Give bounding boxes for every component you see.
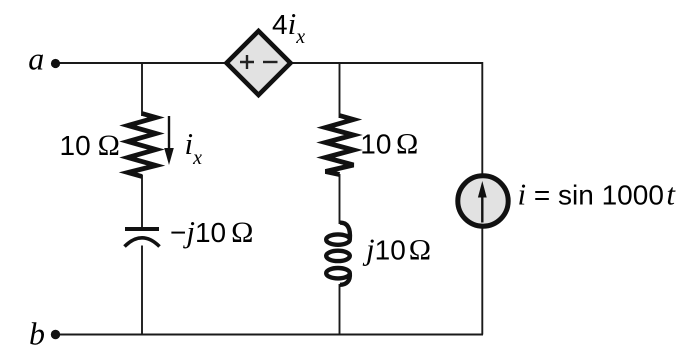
wire middle branch lower (339, 284, 341, 335)
wire middle branch mid (339, 174, 341, 224)
plus polarity mark (240, 55, 254, 69)
svg-text:j10Ω: j10Ω (362, 232, 431, 267)
svg-text:4ix: 4ix (272, 6, 305, 48)
capacitor C1 top plate (125, 227, 159, 231)
wire top-right segment diamond to right corner (287, 62, 482, 64)
svg-text:10Ω: 10Ω (60, 129, 120, 162)
resistor R2 10ohm zigzag (326, 116, 354, 175)
wire bottom (56, 334, 483, 336)
wire left branch upper (141, 62, 143, 116)
wire left branch middle (141, 175, 143, 229)
current source arrow (481, 195, 483, 223)
dependent voltage source U1 diamond (227, 31, 291, 95)
wire middle branch upper (339, 62, 341, 118)
svg-text:a: a (28, 41, 44, 77)
svg-text:b: b (29, 316, 45, 352)
current arrow ix (168, 116, 170, 150)
wire right branch (481, 62, 483, 335)
minus polarity mark (263, 61, 278, 63)
wire left branch lower (141, 246, 143, 335)
svg-text:ix: ix (185, 126, 203, 169)
current source I1 circle (458, 176, 508, 226)
terminal a dot (51, 59, 60, 68)
resistor R1 10ohm zigzag (128, 114, 156, 177)
svg-text:i = sin 1000t: i = sin 1000t (518, 177, 677, 212)
terminal b dot (51, 330, 60, 339)
svg-text:−j10Ω: −j10Ω (170, 214, 253, 249)
svg-text:10Ω: 10Ω (360, 128, 418, 161)
capacitor C1 curved plate (125, 238, 160, 247)
wire top-left segment a to diamond (56, 62, 230, 64)
inductor L1 coil (326, 223, 350, 285)
